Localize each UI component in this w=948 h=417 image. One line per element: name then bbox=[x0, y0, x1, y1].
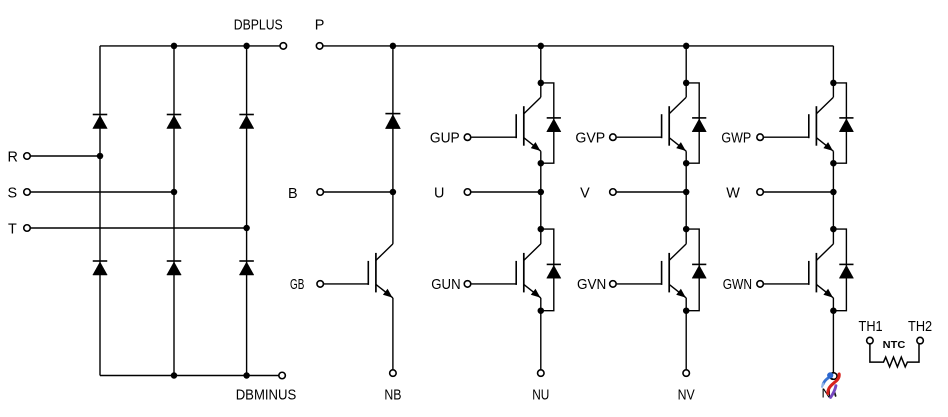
svg-text:V: V bbox=[580, 185, 590, 201]
svg-text:B: B bbox=[288, 186, 298, 202]
svg-text:GVN: GVN bbox=[577, 277, 606, 293]
svg-text:GUP: GUP bbox=[430, 130, 460, 146]
svg-text:U: U bbox=[434, 185, 444, 201]
svg-text:P: P bbox=[315, 17, 325, 33]
svg-text:S: S bbox=[8, 185, 18, 201]
svg-text:DBMINUS: DBMINUS bbox=[236, 387, 297, 403]
svg-text:GWP: GWP bbox=[721, 130, 751, 146]
svg-text:W: W bbox=[726, 185, 740, 201]
svg-text:GB: GB bbox=[290, 277, 304, 293]
svg-text:DBPLUS: DBPLUS bbox=[234, 17, 283, 33]
svg-text:NV: NV bbox=[678, 387, 695, 403]
svg-text:GWN: GWN bbox=[723, 277, 752, 293]
svg-text:GVP: GVP bbox=[575, 130, 605, 146]
svg-text:TH1: TH1 bbox=[859, 319, 883, 335]
svg-text:GUN: GUN bbox=[431, 277, 460, 293]
svg-text:R: R bbox=[8, 149, 18, 165]
svg-text:T: T bbox=[8, 221, 17, 237]
svg-text:NU: NU bbox=[532, 387, 549, 403]
svg-text:TH2: TH2 bbox=[908, 319, 932, 335]
svg-text:NTC: NTC bbox=[883, 340, 906, 351]
svg-text:NB: NB bbox=[384, 387, 401, 403]
